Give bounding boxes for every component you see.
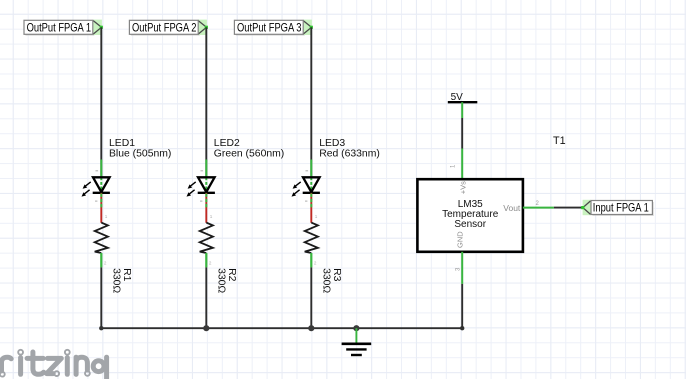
- svg-text:330Ω: 330Ω: [321, 268, 332, 293]
- junction col3: [308, 325, 314, 331]
- power 5V: [448, 92, 478, 118]
- svg-text:2: 2: [314, 261, 317, 266]
- LED LED3: [292, 160, 320, 197]
- svg-text:+Vs: +Vs: [458, 181, 467, 194]
- wire R1 to bus: [100, 267, 102, 328]
- resistor R2: [200, 223, 213, 268]
- svg-text:LED1: LED1: [109, 138, 135, 149]
- svg-text:OutPut FPGA 2: OutPut FPGA 2: [132, 20, 197, 34]
- wire 5V to LM35: [461, 118, 463, 149]
- wire label3 to LED3: [310, 27, 312, 177]
- wire Vout to input label: [554, 207, 583, 209]
- wire R3 to bus: [310, 267, 312, 328]
- wire LED2 to R2 red: [205, 193, 207, 223]
- R2 value label: [216, 268, 237, 293]
- wire GND pin to bus: [461, 284, 463, 328]
- LED1 name label: [109, 138, 171, 160]
- svg-text:T1: T1: [553, 135, 566, 147]
- bus left corner cap: [99, 326, 103, 330]
- svg-text:Green (560nm): Green (560nm): [214, 148, 284, 159]
- svg-text:2: 2: [209, 261, 212, 266]
- LED3 pin marks: [305, 170, 318, 265]
- net label OutPut FPGA 2: [129, 20, 208, 36]
- LED3 name label: [319, 138, 380, 160]
- svg-text:1: 1: [315, 214, 318, 219]
- LED3 cathode pin green overlay: [310, 194, 312, 210]
- net label Input FPGA 1: [581, 200, 654, 216]
- svg-text:LED2: LED2: [214, 138, 240, 149]
- svg-text:Red (633nm): Red (633nm): [319, 148, 380, 159]
- svg-text:R3: R3: [331, 268, 342, 282]
- svg-text:GND: GND: [456, 231, 465, 248]
- wire R2 to bus: [205, 267, 207, 328]
- svg-text:Vout: Vout: [503, 203, 521, 213]
- svg-text:OutPut FPGA 1: OutPut FPGA 1: [27, 20, 92, 34]
- LED LED1: [82, 160, 110, 197]
- resistor R3: [305, 223, 318, 268]
- resistor R1: [95, 223, 108, 268]
- svg-text:2: 2: [104, 261, 107, 266]
- R3 value label: [321, 268, 342, 293]
- LED LED2: [187, 160, 215, 197]
- IC U1 LM35: [417, 179, 523, 252]
- svg-text:R1: R1: [121, 268, 132, 282]
- LED2 cathode pin green overlay: [205, 194, 207, 210]
- wire label2 to LED2: [205, 27, 207, 177]
- junction ground tap: [353, 325, 359, 331]
- LED1 cathode pin green overlay: [100, 194, 102, 210]
- svg-text:R2: R2: [226, 268, 237, 282]
- ground: [342, 328, 372, 355]
- LM35 GND pin green: [461, 252, 463, 284]
- net label OutPut FPGA 1: [24, 20, 103, 36]
- R1 value label: [111, 268, 132, 293]
- wire LED1 to R1 red: [100, 193, 102, 223]
- svg-text:330Ω: 330Ω: [111, 268, 122, 293]
- LM35 +Vs pin green: [461, 149, 463, 180]
- net label OutPut FPGA 3: [234, 20, 313, 36]
- svg-text:Input FPGA 1: Input FPGA 1: [593, 201, 649, 215]
- junction col2: [203, 325, 209, 331]
- svg-text:Sensor: Sensor: [454, 219, 486, 230]
- LED1 pin marks: [95, 170, 108, 265]
- ground bus wire: [101, 327, 462, 328]
- svg-text:1: 1: [105, 214, 108, 219]
- wire LED3 to R3 red: [310, 193, 312, 223]
- fritzing watermark: [0, 350, 107, 379]
- svg-text:LED3: LED3: [319, 138, 345, 149]
- svg-text:330Ω: 330Ω: [216, 268, 227, 293]
- svg-text:OutPut FPGA 3: OutPut FPGA 3: [237, 20, 302, 34]
- bus right corner cap: [460, 326, 464, 330]
- LM35 Vout pin green: [523, 207, 554, 209]
- LED2 name label: [214, 138, 284, 160]
- wire label1 to LED1: [100, 27, 102, 177]
- LED2 pin marks: [200, 170, 213, 265]
- svg-text:Blue (505nm): Blue (505nm): [109, 148, 171, 159]
- svg-text:1: 1: [210, 214, 213, 219]
